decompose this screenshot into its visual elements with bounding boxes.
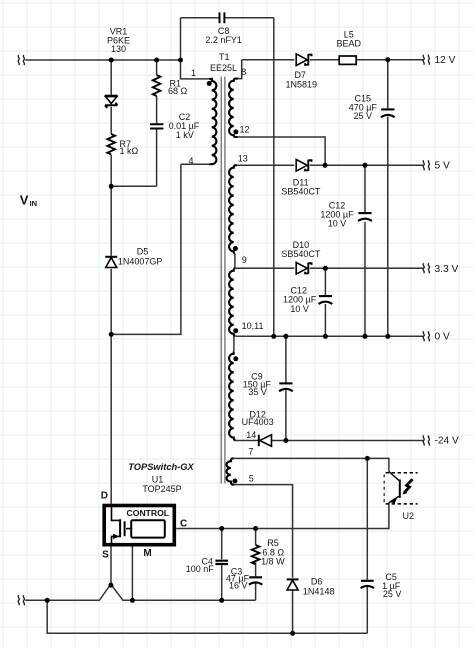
node pin7 rail C5 junction	[365, 456, 370, 461]
wire input top rail	[25, 59, 180, 61]
wire drain vertical to U1	[110, 334, 112, 503]
svg-text:TOP245P: TOP245P	[142, 484, 181, 494]
wire C15 branch	[387, 60, 389, 337]
wire pin1 drop	[181, 60, 211, 79]
capacitor C12 1200uF 5V electrolytic	[358, 212, 371, 214]
transformer T1 primary winding pins 1-4	[210, 79, 217, 164]
svg-text:EE25L: EE25L	[210, 63, 237, 73]
svg-text:-24 V: -24 V	[435, 436, 460, 447]
node C rail junctions	[219, 526, 224, 531]
svg-text:TOPSwitch-GX: TOPSwitch-GX	[128, 462, 194, 472]
capacitor C15 470uF electrolytic	[381, 108, 394, 110]
diode D7 1N5819 schottky	[296, 54, 311, 66]
resistor R5 6.8	[252, 545, 260, 564]
svg-text:100 nF: 100 nF	[186, 564, 215, 574]
svg-text:1N4007GP: 1N4007GP	[118, 257, 163, 267]
resistor R7 1k	[107, 134, 115, 154]
capacitor C3 47uF electrolytic	[249, 577, 262, 584]
svg-text:D6: D6	[311, 576, 323, 586]
capacitor C5 1uF electrolytic	[361, 581, 374, 588]
svg-text:R5: R5	[267, 538, 279, 548]
svg-text:C: C	[180, 518, 187, 529]
svg-text:25 V: 25 V	[354, 111, 373, 121]
svg-text:1 kV: 1 kV	[176, 130, 194, 140]
transformer T1 winding link 10,11	[233, 336, 235, 351]
input break top left	[18, 55, 24, 65]
svg-text:1: 1	[191, 68, 196, 78]
break 3.3V	[423, 263, 429, 273]
diode D12 UF4003	[259, 435, 272, 447]
node D5/pin4 junction	[109, 332, 114, 337]
wire primary return pin4 to drain	[111, 164, 181, 334]
transformer T1 secondary winding pins 13-9	[229, 165, 237, 253]
capacitor C9 150uF electrolytic	[279, 382, 292, 384]
U1 internal MOSFET	[112, 507, 132, 543]
wire C8 right vertical down to 0V	[273, 18, 275, 337]
wire -24V rail	[236, 440, 424, 442]
wire S pin vertical	[110, 546, 112, 584]
svg-text:13: 13	[238, 154, 248, 164]
transformer T1 bias winding pins 7-5	[226, 458, 233, 484]
wire S return rail with hop	[25, 584, 255, 600]
svg-text:10 V: 10 V	[328, 218, 347, 228]
break -24V	[423, 436, 429, 446]
wire pin8 riser	[238, 60, 242, 79]
wire C9 branch	[285, 336, 287, 440]
svg-text:16 V: 16 V	[229, 580, 248, 590]
node 12V C15 junction	[385, 57, 390, 62]
diode D5 1N4007GP	[105, 257, 117, 268]
svg-text:0 V: 0 V	[435, 332, 450, 343]
optocoupler U2 phototransistor	[389, 472, 413, 504]
wire C12a branch	[364, 165, 366, 336]
wire R5 C3 branch	[255, 529, 257, 601]
svg-text:BEAD: BEAD	[337, 39, 362, 49]
wire 3.3V rail	[235, 267, 424, 269]
svg-text:4: 4	[188, 156, 193, 166]
node 5V junctions	[323, 163, 328, 168]
U1 control block inner box	[131, 520, 165, 537]
wire 5V rail	[236, 164, 423, 166]
transformer T1 core	[221, 77, 225, 484]
svg-text:14: 14	[246, 430, 256, 440]
diode D6 1N4148	[287, 579, 299, 590]
svg-text:U2: U2	[403, 511, 415, 521]
IC U1 TOP245P outline	[104, 506, 174, 545]
svg-text:8: 8	[241, 67, 246, 77]
svg-text:25 V: 25 V	[383, 589, 402, 599]
capacitor C8 2.2nF Y1	[220, 12, 225, 23]
wire R1/C2 branch	[156, 60, 158, 186]
capacitor C12 1200uF 3.3V electrolytic	[319, 295, 332, 297]
svg-text:T1: T1	[219, 52, 230, 62]
svg-text:V: V	[20, 193, 29, 208]
diode D11 SB540CT schottky	[296, 160, 311, 172]
wire 12V rail	[242, 59, 424, 61]
break 5V	[423, 160, 429, 170]
node top rail junctions	[109, 58, 114, 63]
node 0V junctions	[271, 334, 276, 339]
svg-text:5: 5	[249, 474, 254, 484]
wire pin4 lead	[181, 163, 211, 165]
capacitor C2 0.01uF	[150, 124, 163, 128]
svg-text:68 Ω: 68 Ω	[168, 86, 188, 96]
diode D10 SB540CT schottky	[296, 263, 311, 275]
svg-text:12: 12	[239, 124, 249, 134]
svg-text:7: 7	[248, 447, 253, 457]
transformer T1 winding pins 10,11-14	[229, 352, 235, 441]
input break bottom left	[18, 595, 24, 605]
wire pin12 to 5V rail	[236, 137, 325, 165]
svg-text:UF4003: UF4003	[242, 417, 274, 427]
svg-text:10,11: 10,11	[242, 321, 264, 331]
svg-text:SB540CT: SB540CT	[281, 249, 321, 259]
wire pin5 to D6	[233, 485, 293, 634]
node R7/C2 bottom junction	[109, 184, 114, 189]
wire VR1/R7 branch	[110, 60, 112, 334]
svg-text:1N4148: 1N4148	[303, 586, 335, 596]
wire bottom joining rail R7-C2	[111, 185, 156, 187]
wire C control rail	[176, 503, 389, 529]
node S rail junctions	[45, 598, 50, 603]
node 3.3V junction	[323, 266, 328, 271]
svg-text:9: 9	[242, 255, 247, 265]
break 0V	[423, 331, 429, 341]
wire C4 branch	[221, 529, 223, 601]
svg-text:5 V: 5 V	[435, 161, 450, 172]
svg-text:SB540CT: SB540CT	[281, 186, 321, 196]
inductor L5 ferrite bead	[339, 56, 356, 64]
svg-text:1N5819: 1N5819	[286, 79, 318, 89]
transformer T1 winding tap 9 link	[234, 253, 236, 268]
wire C8 top horizontal	[181, 17, 274, 19]
svg-text:D5: D5	[137, 247, 149, 257]
transformer T1 secondary winding pins 9-10,11	[229, 268, 235, 336]
svg-text:IN: IN	[30, 199, 37, 208]
svg-text:3.3 V: 3.3 V	[435, 264, 459, 275]
wire pin7 opto rail	[231, 458, 389, 471]
svg-text:1/8 W: 1/8 W	[261, 556, 285, 566]
svg-text:2.2 nFY1: 2.2 nFY1	[205, 35, 242, 45]
resistor R1 68	[153, 75, 161, 96]
break 12V	[423, 55, 429, 65]
svg-text:10 V: 10 V	[290, 304, 309, 314]
wire lower return rail	[47, 600, 367, 633]
wire 0V rail	[236, 335, 424, 337]
svg-text:130: 130	[111, 44, 126, 54]
svg-text:35 V: 35 V	[248, 387, 267, 397]
transformer T1 secondary winding pins 8-12	[229, 79, 238, 137]
capacitor C4 100nF	[215, 561, 228, 564]
optocoupler U2 dashed box	[386, 473, 418, 504]
svg-text:M: M	[143, 548, 151, 559]
node -24V C9 junction	[283, 438, 288, 443]
wire M pin vertical	[131, 546, 133, 600]
node lower rail D6 junction	[290, 631, 295, 636]
TVS diode VR1 P6KE130	[105, 96, 118, 108]
wire C5 branch	[366, 458, 368, 633]
svg-text:S: S	[102, 550, 109, 561]
svg-text:CONTROL: CONTROL	[127, 508, 170, 518]
svg-text:12 V: 12 V	[435, 55, 456, 66]
wire C8 left vertical	[180, 18, 182, 60]
wire C12b branch	[324, 268, 326, 336]
node winding polarity dots	[207, 81, 212, 86]
svg-text:D: D	[101, 490, 108, 501]
svg-text:1 kΩ: 1 kΩ	[120, 146, 139, 156]
